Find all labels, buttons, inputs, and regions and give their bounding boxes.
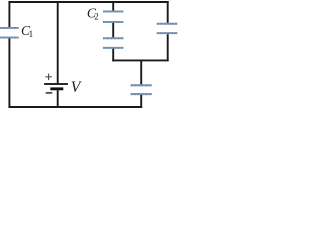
capacitor C3 (unlabeled, below C2) xyxy=(103,37,123,49)
label - (battery negative) xyxy=(46,92,53,94)
label C1 xyxy=(21,23,34,40)
battery V xyxy=(44,83,68,90)
wire left upper (top wire down to C1 top plate) xyxy=(8,1,10,27)
wire top (node between C1, V, C2 branch, right branch) xyxy=(8,1,168,3)
wire right lower (right capacitor to inner bottom wire) xyxy=(167,34,169,61)
wire C2 branch upper stub (top wire to C2 top plate) xyxy=(112,1,114,11)
wire C2 branch lower (C3 bottom plate to inner bottom wire) xyxy=(112,49,114,62)
wire C2 branch middle (C2 bottom plate to lower capacitor) xyxy=(112,23,114,38)
label + (battery positive) xyxy=(45,74,51,81)
wire bottom-right branch lower (capacitor to bottom wire) xyxy=(140,95,142,108)
wire bottom (node between C1, V-, bottom-right capacitor) xyxy=(8,106,142,108)
wire right upper (top wire down to right capacitor) xyxy=(167,1,169,23)
capacitor C4 (unlabeled, right branch) xyxy=(157,23,178,34)
label C2 xyxy=(87,5,99,21)
wire bottom-right branch upper (inner bottom wire to capacitor) xyxy=(140,60,142,85)
svg-text:1: 1 xyxy=(29,29,34,40)
wire battery branch lower (battery - down to bottom wire) xyxy=(57,90,59,108)
wire inner bottom (node between C3, right capacitor, bottom-right capacitor) xyxy=(112,59,168,61)
wire battery branch upper (top wire down to battery +) xyxy=(57,1,59,83)
capacitor C2 xyxy=(103,11,123,23)
capacitor C1 xyxy=(0,27,19,39)
svg-text:2: 2 xyxy=(94,12,99,22)
wire left lower (C1 bottom plate down to bottom wire) xyxy=(8,38,10,108)
capacitor C5 (unlabeled, bottom-right branch) xyxy=(131,84,152,95)
